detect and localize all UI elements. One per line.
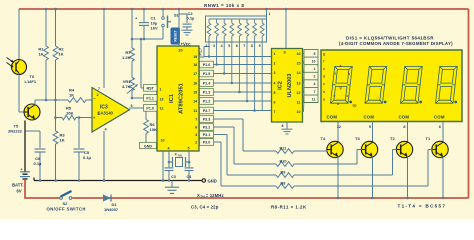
svg-text:4: 4 xyxy=(168,147,170,151)
svg-text:1K: 1K xyxy=(69,93,74,98)
svg-text:10: 10 xyxy=(312,59,316,63)
svg-text:11: 11 xyxy=(193,109,197,113)
svg-text:P3.2: P3.2 xyxy=(203,126,211,130)
svg-text:2: 2 xyxy=(205,44,207,48)
svg-text:TAL: TAL xyxy=(178,153,183,157)
svg-text:COM: COM xyxy=(399,114,410,119)
svg-text:P1.7: P1.7 xyxy=(199,48,203,56)
svg-text:1.2K: 1.2K xyxy=(122,55,131,60)
svg-text:d: d xyxy=(323,75,325,79)
svg-text:R8-R11 = 1.2K: R8-R11 = 1.2K xyxy=(271,204,307,209)
svg-text:d: d xyxy=(337,102,339,106)
svg-text:1N4007: 1N4007 xyxy=(104,207,119,212)
svg-text:11: 11 xyxy=(312,97,316,101)
svg-text:10: 10 xyxy=(297,110,301,114)
svg-text:14: 14 xyxy=(193,100,197,104)
svg-text:11: 11 xyxy=(297,101,301,105)
svg-text:15: 15 xyxy=(193,91,197,95)
svg-text:P3.3: P3.3 xyxy=(203,118,211,122)
svg-text:dp: dp xyxy=(353,104,357,108)
svg-text:R8: R8 xyxy=(281,181,286,185)
svg-text:1K: 1K xyxy=(59,52,64,57)
svg-text:9: 9 xyxy=(369,125,371,129)
svg-text:P1.3: P1.3 xyxy=(203,91,211,95)
svg-text:3: 3 xyxy=(213,44,215,48)
svg-text:16: 16 xyxy=(193,82,197,86)
svg-text:P1.2: P1.2 xyxy=(203,100,211,104)
svg-text:3: 3 xyxy=(98,112,100,116)
svg-text:C3, C4 = 22p: C3, C4 = 22p xyxy=(191,204,219,209)
svg-text:P3.1: P3.1 xyxy=(203,133,211,137)
svg-text:6: 6 xyxy=(195,126,197,130)
svg-text:7: 7 xyxy=(98,87,100,91)
svg-text:1K: 1K xyxy=(60,138,65,143)
svg-text:5: 5 xyxy=(274,91,276,95)
svg-text:1K: 1K xyxy=(38,52,43,57)
svg-text:2: 2 xyxy=(314,75,316,79)
svg-text:GND: GND xyxy=(144,144,153,148)
svg-text:8: 8 xyxy=(282,124,284,128)
svg-text:9: 9 xyxy=(259,44,261,48)
svg-text:RESET: RESET xyxy=(174,29,178,41)
svg-text:10K: 10K xyxy=(66,111,73,116)
svg-text:COM: COM xyxy=(364,114,375,119)
svg-text:2N2222: 2N2222 xyxy=(8,129,23,134)
svg-text:1: 1 xyxy=(314,67,316,71)
svg-text:0.1µ: 0.1µ xyxy=(187,16,196,21)
svg-text:g: g xyxy=(340,85,342,89)
svg-text:R11: R11 xyxy=(280,146,287,150)
svg-text:R10: R10 xyxy=(280,159,287,163)
svg-text:T3: T3 xyxy=(355,136,360,141)
svg-text:(4-DIGIT COMMON ANODE 7-SEGMEN: (4-DIGIT COMMON ANODE 7-SEGMENT DISPLAY) xyxy=(339,41,453,46)
svg-text:e: e xyxy=(334,94,336,98)
svg-text:20: 20 xyxy=(178,49,182,53)
svg-text:7: 7 xyxy=(274,110,276,114)
svg-text:12: 12 xyxy=(297,91,301,95)
svg-text:7: 7 xyxy=(243,44,245,48)
svg-text:16V: 16V xyxy=(151,26,158,31)
svg-text:17: 17 xyxy=(193,72,197,76)
svg-text:c: c xyxy=(323,82,325,86)
svg-text:0.1µ: 0.1µ xyxy=(83,155,92,160)
svg-text:10: 10 xyxy=(161,138,165,142)
svg-text:13: 13 xyxy=(297,82,301,86)
svg-text:0.1µ: 0.1µ xyxy=(34,161,43,166)
svg-text:4: 4 xyxy=(314,82,316,86)
svg-text:BATT.: BATT. xyxy=(12,182,24,187)
svg-text:P3.7: P3.7 xyxy=(203,109,211,113)
svg-text:7: 7 xyxy=(314,90,316,94)
svg-text:P1.6: P1.6 xyxy=(203,63,211,67)
svg-text:6: 6 xyxy=(236,44,238,48)
svg-text:4: 4 xyxy=(274,82,276,86)
svg-text:16: 16 xyxy=(297,52,301,56)
svg-text:19: 19 xyxy=(193,55,197,59)
svg-text:1: 1 xyxy=(160,87,162,91)
svg-text:4.7K: 4.7K xyxy=(122,84,131,89)
svg-text:12: 12 xyxy=(160,106,164,110)
svg-text:2: 2 xyxy=(97,93,99,97)
svg-text:5: 5 xyxy=(314,52,316,56)
svg-text:14: 14 xyxy=(297,71,301,75)
svg-text:AT89C2051: AT89C2051 xyxy=(179,82,185,114)
svg-text:5: 5 xyxy=(228,44,230,48)
svg-text:RNW1 = 10k x 8: RNW1 = 10k x 8 xyxy=(204,3,244,8)
svg-text:18: 18 xyxy=(193,63,197,67)
svg-text:6V: 6V xyxy=(17,188,22,193)
svg-text:ULN2003: ULN2003 xyxy=(287,74,293,98)
svg-text:2: 2 xyxy=(274,62,276,66)
svg-text:C3: C3 xyxy=(171,175,176,179)
svg-text:= 12MHz: = 12MHz xyxy=(206,193,224,198)
svg-text:ON/OFF SWITCH: ON/OFF SWITCH xyxy=(47,206,86,211)
svg-text:T1: T1 xyxy=(426,136,431,141)
svg-text:a: a xyxy=(340,64,342,68)
svg-text:P3.0: P3.0 xyxy=(203,141,211,145)
svg-text:COM: COM xyxy=(434,114,445,119)
svg-text:10K: 10K xyxy=(150,127,157,132)
svg-text:b: b xyxy=(348,72,350,76)
svg-text:6: 6 xyxy=(439,125,441,129)
svg-text:a: a xyxy=(323,97,325,101)
svg-text:7: 7 xyxy=(195,118,197,122)
svg-text:15: 15 xyxy=(297,62,301,66)
svg-text:P1.4: P1.4 xyxy=(203,82,212,86)
svg-text:COM: COM xyxy=(327,114,338,119)
svg-text:T1-T4 = BC557: T1-T4 = BC557 xyxy=(398,203,447,208)
svg-text:+: + xyxy=(21,168,23,172)
svg-text:P1.1: P1.1 xyxy=(146,97,154,101)
svg-text:P1.5: P1.5 xyxy=(203,72,211,76)
svg-text:1: 1 xyxy=(274,52,276,56)
svg-text:CA3140: CA3140 xyxy=(98,111,114,116)
svg-text:GND: GND xyxy=(208,179,217,184)
svg-text:IC1: IC1 xyxy=(169,93,175,103)
svg-text:IC2: IC2 xyxy=(278,81,284,90)
svg-text:4: 4 xyxy=(221,44,223,48)
svg-text:1: 1 xyxy=(269,12,271,16)
svg-text:R9: R9 xyxy=(281,170,286,174)
svg-text:6: 6 xyxy=(274,101,276,105)
svg-text:L14F1: L14F1 xyxy=(25,79,37,84)
svg-text:9: 9 xyxy=(283,51,285,55)
svg-text:e: e xyxy=(323,67,325,71)
svg-text:T2: T2 xyxy=(390,136,395,141)
svg-text:12: 12 xyxy=(337,125,341,129)
svg-text:b: b xyxy=(323,90,325,94)
svg-text:g: g xyxy=(323,52,325,56)
svg-text:8: 8 xyxy=(403,125,405,129)
svg-text:2: 2 xyxy=(195,141,197,145)
svg-text:8: 8 xyxy=(251,44,253,48)
svg-text:3: 3 xyxy=(274,71,276,75)
svg-text:RST: RST xyxy=(147,87,155,91)
svg-text:T4: T4 xyxy=(321,136,326,141)
svg-text:3: 3 xyxy=(195,133,197,137)
svg-text:c: c xyxy=(347,94,349,98)
svg-text:5: 5 xyxy=(188,147,190,151)
svg-text:13: 13 xyxy=(160,97,164,101)
svg-text:P1.0: P1.0 xyxy=(146,107,154,111)
